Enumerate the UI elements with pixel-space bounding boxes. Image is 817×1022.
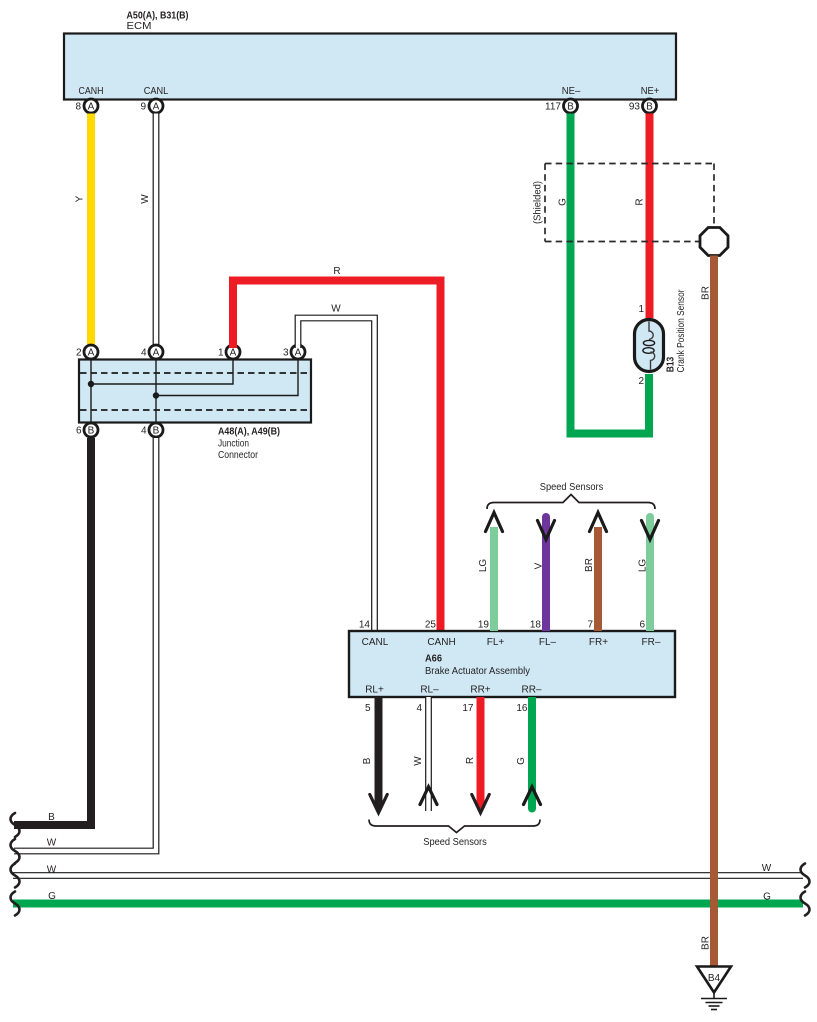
svg-text:25: 25 xyxy=(425,620,437,631)
svg-text:ECM: ECM xyxy=(127,21,152,32)
pin 9 (A) CANL of ECM xyxy=(140,86,168,113)
wire W (junction pin 3 to A66 pin 14 CANL) xyxy=(298,304,375,632)
svg-text:Junction: Junction xyxy=(218,438,249,449)
svg-text:FL–: FL– xyxy=(539,637,557,648)
break symbols for G rail xyxy=(11,892,810,916)
svg-text:G: G xyxy=(516,757,527,765)
wire R (junction pin 1 to A66 pin 25 CANH) xyxy=(233,266,441,631)
svg-text:FR+: FR+ xyxy=(589,637,608,648)
svg-text:1: 1 xyxy=(218,348,224,359)
svg-text:5: 5 xyxy=(365,703,371,714)
svg-text:17: 17 xyxy=(462,703,474,714)
break symbol for wire B xyxy=(11,813,20,837)
internal bus wire pin4 to pin3 with junction dot xyxy=(153,360,298,422)
svg-text:B13: B13 xyxy=(666,356,677,372)
svg-text:18: 18 xyxy=(530,620,542,631)
svg-text:2: 2 xyxy=(638,376,644,387)
wire W (junction pin 4B to page edge) xyxy=(14,438,156,851)
svg-text:CANH: CANH xyxy=(79,86,104,97)
svg-text:RL+: RL+ xyxy=(365,685,384,696)
svg-text:W: W xyxy=(140,194,151,204)
svg-text:Y: Y xyxy=(75,195,86,202)
svg-text:RL–: RL– xyxy=(420,685,439,696)
pin 8 (A) CANH of ECM xyxy=(75,86,103,113)
wire B (junction pin 6 to page edge) xyxy=(14,438,91,825)
svg-text:A: A xyxy=(153,347,160,358)
svg-text:A: A xyxy=(88,101,95,112)
svg-text:A: A xyxy=(230,347,237,358)
shield drain octagon symbol xyxy=(700,228,728,256)
svg-text:6: 6 xyxy=(639,620,645,631)
svg-text:A: A xyxy=(153,101,160,112)
junction pin 3 (A) xyxy=(283,345,305,359)
svg-text:B: B xyxy=(646,101,653,112)
svg-text:G: G xyxy=(763,892,771,903)
shield dashed boundary (Shielded) xyxy=(533,164,715,242)
svg-text:W: W xyxy=(47,865,57,876)
svg-text:W: W xyxy=(47,838,57,849)
svg-text:B4: B4 xyxy=(708,973,721,984)
junction pin 2 (A) xyxy=(76,345,98,359)
junction pin 6 (B) xyxy=(76,423,98,437)
top Speed Sensors brace label xyxy=(487,482,655,509)
wire BR (shield drain to ground B4) xyxy=(701,256,715,967)
junction connector A48(A), A49(B) box xyxy=(79,360,311,462)
svg-text:RR–: RR– xyxy=(521,685,541,696)
svg-text:3: 3 xyxy=(283,348,289,359)
wire W (CANL, ECM pin 9 to junction pin 4) xyxy=(140,114,156,346)
svg-text:BR: BR xyxy=(584,558,595,572)
svg-text:Crank Position Sensor: Crank Position Sensor xyxy=(676,289,687,373)
svg-text:A: A xyxy=(295,347,302,358)
svg-text:A: A xyxy=(88,347,95,358)
wire G (A66 pin 16 RR- to speed sensor, half arrow) xyxy=(516,697,541,813)
svg-text:117: 117 xyxy=(545,102,561,113)
svg-text:1: 1 xyxy=(638,304,644,315)
svg-text:NE–: NE– xyxy=(562,86,581,97)
svg-text:V: V xyxy=(534,562,545,569)
svg-text:2: 2 xyxy=(76,348,82,359)
svg-text:(Shielded): (Shielded) xyxy=(533,181,544,224)
svg-text:A66: A66 xyxy=(425,654,442,665)
svg-text:B: B xyxy=(567,101,574,112)
svg-text:B: B xyxy=(362,757,373,764)
junction pin 4 (A) xyxy=(141,345,163,359)
svg-text:W: W xyxy=(762,863,772,874)
svg-text:16: 16 xyxy=(516,703,528,714)
wire B (A66 pin 5 RL+ to speed sensor, arrow down) xyxy=(362,697,387,813)
svg-text:NE+: NE+ xyxy=(641,86,660,97)
svg-text:Speed Sensors: Speed Sensors xyxy=(423,837,487,848)
svg-text:4: 4 xyxy=(141,426,147,437)
wire G rail across page xyxy=(13,891,803,904)
svg-text:W: W xyxy=(331,304,341,315)
wire Y (CANH, ECM pin 8 to junction pin 2) xyxy=(75,114,92,346)
svg-text:A48(A), A49(B): A48(A), A49(B) xyxy=(218,427,280,438)
wire W (A66 pin 4 RL- to speed sensor, half arrow) xyxy=(413,697,437,811)
wire W rail across page xyxy=(13,863,803,876)
svg-text:9: 9 xyxy=(140,102,146,113)
svg-text:CANL: CANL xyxy=(144,86,169,97)
internal bus wire pin2 to pin1 with junction dot xyxy=(88,360,233,422)
svg-text:8: 8 xyxy=(75,102,81,113)
wire R (A66 pin 17 RR+ to speed sensor, arrow down) xyxy=(465,697,489,813)
svg-text:93: 93 xyxy=(629,102,641,113)
svg-text:BR: BR xyxy=(701,936,712,950)
svg-text:B: B xyxy=(88,425,95,436)
svg-text:R: R xyxy=(635,198,646,205)
svg-text:RR+: RR+ xyxy=(470,685,490,696)
A66 bottom pin names and numbers xyxy=(365,685,542,715)
svg-text:Connector: Connector xyxy=(218,450,259,461)
A66 top pin names and numbers xyxy=(359,620,661,649)
svg-text:R: R xyxy=(465,757,476,764)
A66 Brake Actuator Assembly box xyxy=(349,631,675,697)
svg-text:B: B xyxy=(153,425,160,436)
svg-text:W: W xyxy=(413,756,424,766)
svg-text:CANL: CANL xyxy=(362,637,389,648)
svg-text:CANH: CANH xyxy=(427,637,455,648)
wire LG (A66 pin 6 FR- from speed sensor, arrow down) xyxy=(638,513,659,631)
pin 93 (B) NE+ of ECM xyxy=(629,86,660,113)
svg-text:G: G xyxy=(558,198,569,206)
ground B4 xyxy=(697,967,731,1010)
svg-text:14: 14 xyxy=(359,620,371,631)
svg-text:FL+: FL+ xyxy=(487,637,505,648)
svg-text:G: G xyxy=(48,891,56,902)
wire LG (A66 pin 19 FL+ to speed sensor, arrow up) xyxy=(478,513,503,632)
svg-text:Brake Actuator Assembly: Brake Actuator Assembly xyxy=(425,666,530,677)
svg-text:LG: LG xyxy=(478,559,489,573)
svg-text:19: 19 xyxy=(478,620,490,631)
svg-text:Speed Sensors: Speed Sensors xyxy=(540,482,604,493)
wire R (ECM pin 93 NE+ to sensor pin 1) xyxy=(635,114,650,319)
bottom Speed Sensors brace label xyxy=(369,820,540,849)
svg-text:B: B xyxy=(48,812,55,823)
svg-text:LG: LG xyxy=(638,559,649,573)
junction pin 1 (A) xyxy=(218,345,240,359)
svg-text:6: 6 xyxy=(76,426,82,437)
svg-text:4: 4 xyxy=(416,703,422,714)
svg-text:7: 7 xyxy=(587,620,593,631)
ECM U1 box A50(A), B31(B) xyxy=(64,11,676,100)
svg-text:4: 4 xyxy=(141,348,147,359)
break symbols for W rail xyxy=(11,864,810,888)
wire BR (A66 pin 7 FR+ to speed sensor, arrow up) xyxy=(584,513,607,632)
pin 117 (B) NE- of ECM xyxy=(545,86,581,113)
wire V (A66 pin 18 FL- from speed sensor, arrow down) xyxy=(534,513,555,631)
crank position sensor B13 xyxy=(635,289,688,387)
svg-text:BR: BR xyxy=(701,286,712,300)
svg-text:FR–: FR– xyxy=(642,637,661,648)
svg-text:R: R xyxy=(333,266,340,277)
junction pin 4 (B) xyxy=(141,423,163,437)
wire G (ECM pin 117 NE- to sensor pin 2) xyxy=(558,114,650,434)
break symbol for wire W xyxy=(11,839,20,863)
